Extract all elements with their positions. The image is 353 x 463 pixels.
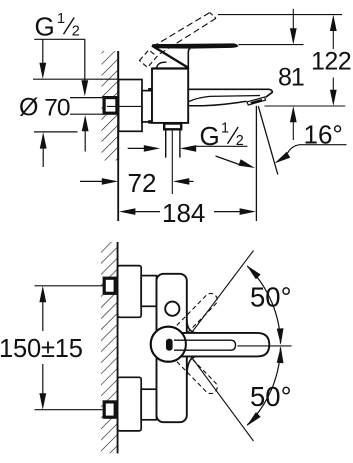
svg-text:81: 81 <box>278 64 304 92</box>
shower outlet union nut <box>164 124 181 130</box>
black square wall fitting <box>104 98 117 114</box>
shower outlet pipe right <box>179 129 181 157</box>
svg-text:50°: 50° <box>250 281 292 312</box>
150 dim upper arrow <box>39 286 46 302</box>
150 ext top <box>35 285 105 287</box>
aerator black insert <box>250 99 262 104</box>
dim 72 right arrow <box>173 178 189 185</box>
hub circle <box>151 327 186 362</box>
50 deg lower arc arrowhead at line <box>277 347 284 364</box>
O70 bottom extension line <box>34 131 78 133</box>
handle neck slant <box>152 46 188 68</box>
dim 72 left arrow <box>80 180 104 182</box>
lever bottom fillet <box>187 356 196 376</box>
motion arc <box>157 62 167 68</box>
16 deg leader curve <box>287 145 299 154</box>
16 deg label underline <box>300 144 347 146</box>
150 dim lower arrow <box>42 364 44 394</box>
O70 top extension line <box>33 78 119 80</box>
bottom black square fitting <box>104 402 115 417</box>
centerline axis <box>107 105 164 107</box>
svg-text:122: 122 <box>311 48 351 76</box>
bottom connector <box>141 389 156 420</box>
body <box>152 68 188 123</box>
spout inner silhouette line <box>189 96 260 102</box>
wall face line redraw <box>117 242 119 453</box>
svg-text:1: 1 <box>221 121 229 137</box>
spout top edge <box>188 89 272 97</box>
50 deg upper arc <box>247 266 280 344</box>
dashed raised handle line 2 <box>160 18 216 54</box>
shower outlet pipe left <box>165 129 167 157</box>
nub bottom <box>148 120 152 123</box>
svg-text:72: 72 <box>128 168 157 198</box>
collar joint line <box>152 67 188 69</box>
wall face line bottom view <box>117 242 119 453</box>
lever bar <box>181 333 269 357</box>
dim 184 line right <box>214 211 241 213</box>
connector between flange and body <box>142 91 152 122</box>
svg-text:Ø: Ø <box>19 94 38 122</box>
svg-text:184: 184 <box>162 198 205 228</box>
centerline horizontal <box>238 345 292 347</box>
body right edge upper (cartridge collar) <box>188 49 190 69</box>
G1/2 mid underline <box>196 145 248 147</box>
small screw circle <box>165 302 179 316</box>
G1/2 top underline <box>34 38 85 40</box>
dim 122 lower arrow <box>332 78 334 91</box>
dim 184 line left <box>134 211 160 213</box>
wall hatch bottom view <box>101 242 118 453</box>
16 deg left arc <box>216 156 241 165</box>
dim 81 lower arrow <box>290 106 297 122</box>
dashed raised handle end cap <box>210 13 216 19</box>
ext line solid handle top (81) <box>238 44 303 46</box>
dashed lever rotated down <box>177 353 217 394</box>
O70 lower arrow (up) <box>40 132 47 148</box>
spout underside <box>188 101 246 106</box>
svg-text:1: 1 <box>57 11 65 27</box>
bottom flange <box>118 377 142 431</box>
svg-text:2: 2 <box>236 133 244 149</box>
thin diagonal lower (50 deg leg) <box>191 357 254 442</box>
nub top <box>148 88 152 91</box>
G1/2 mid right arrow (points left at pipe) <box>180 145 196 152</box>
50 deg upper arc arrowhead at diagonal <box>247 265 261 279</box>
svg-text:50°: 50° <box>250 381 292 412</box>
hub slot <box>166 339 173 351</box>
dashed raised handle line 1 <box>153 13 210 47</box>
flange (escutcheon) <box>119 80 142 132</box>
svg-text:70: 70 <box>44 95 70 122</box>
top black square fitting <box>104 278 115 293</box>
supply pipe lines in wall <box>70 97 103 99</box>
16 deg vertical leader / 184 extension <box>255 106 257 221</box>
wall face line redraw <box>117 51 119 161</box>
150 ext bottom <box>35 409 105 411</box>
ext line raised handle top (122) <box>218 14 342 16</box>
pipe centerline (72 extension) <box>171 129 173 194</box>
wall hatch top view <box>102 51 119 161</box>
16 deg left arc arrowhead <box>238 159 255 168</box>
hub circle fill <box>151 327 186 362</box>
aerator outline <box>247 97 266 105</box>
top flange <box>118 266 142 318</box>
dashed handle front tip parallelogram <box>140 50 158 68</box>
lever handle solid (side view) <box>152 43 238 48</box>
16 deg slant line <box>258 106 278 174</box>
top connector <box>141 276 156 307</box>
dim 122 upper arrow <box>330 15 337 31</box>
wall face line top view <box>117 51 119 221</box>
thin diagonal upper (50 deg leg) <box>191 251 254 334</box>
body front view <box>157 274 187 422</box>
svg-text:G: G <box>35 12 55 42</box>
16 deg arrowhead <box>275 152 291 164</box>
ext line spout outlet level <box>265 105 346 107</box>
svg-text:16°: 16° <box>304 120 343 150</box>
svg-text:G: G <box>200 121 220 151</box>
G1/2 mid left arrow (points right at pipe) <box>128 147 145 149</box>
svg-text:2: 2 <box>72 24 80 40</box>
50 deg lower arc <box>247 347 280 425</box>
dim 81 upper arrow <box>292 9 294 29</box>
50 deg lower arc arrowhead at diagonal <box>247 412 261 426</box>
svg-text:150±15: 150±15 <box>0 335 83 363</box>
lever inner contour <box>174 340 236 350</box>
dashed lever rotated up <box>177 293 217 334</box>
G1/2 leader arrow 2 <box>84 39 86 81</box>
lever top fillet <box>187 320 196 333</box>
G1/2 leader arrow 1 <box>42 39 44 63</box>
pipe lower arrow (up) <box>82 115 89 131</box>
50 deg upper arc arrowhead at line <box>277 328 284 345</box>
